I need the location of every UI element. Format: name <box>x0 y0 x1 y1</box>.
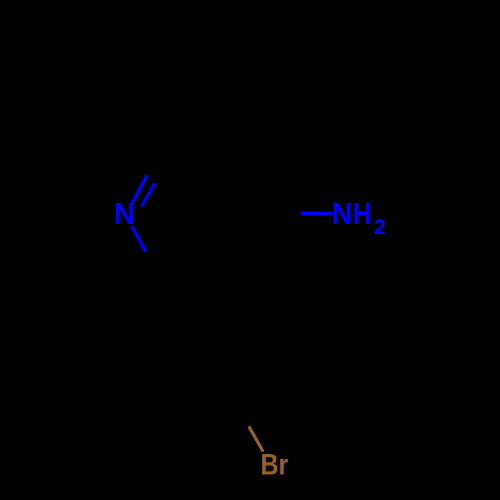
wire: C4-NH2 bond half (blue) <box>301 212 333 215</box>
svg-text:2: 2 <box>374 215 386 239</box>
svg-text:H: H <box>353 197 372 231</box>
wire: CH2-Br bond half (brown) <box>249 426 263 452</box>
wire: pyridine N-C6 single bond half (blue) <box>132 226 146 252</box>
wire: pyridine N=C2 double bond outer half (blue) <box>132 175 147 203</box>
wire: pyridine N=C2 double bond inner half (blue) <box>142 183 155 206</box>
svg-text:Br: Br <box>261 449 289 482</box>
svg-text:N: N <box>332 197 353 231</box>
svg-text:N: N <box>114 197 135 231</box>
